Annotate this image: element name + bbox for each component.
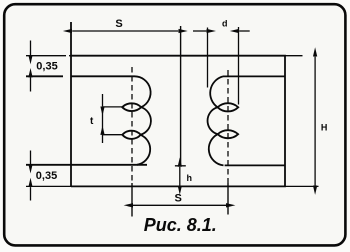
bend 3 left element xyxy=(137,135,150,165)
svg-text:H: H xyxy=(321,123,328,133)
t extension stub lower xyxy=(103,134,123,136)
dimension 0,35 bottom upper arrow xyxy=(30,151,32,165)
dimension H xyxy=(314,57,316,186)
turn ellipse 1 left element xyxy=(122,103,141,111)
svg-text:0,35: 0,35 xyxy=(36,170,57,182)
d extension line left xyxy=(207,28,209,88)
dimension 0,35 bottom lower arrow xyxy=(30,187,32,200)
bend 2 left element xyxy=(141,107,151,135)
dimension t middle line xyxy=(102,106,104,134)
wire top line right xyxy=(223,75,285,77)
t extension stub upper xyxy=(103,106,123,108)
svg-text:S: S xyxy=(115,18,122,30)
bend 1 left element xyxy=(134,76,151,107)
dimension d line right arrow xyxy=(239,30,250,32)
svg-text:d: d xyxy=(222,18,228,28)
centerline right element (dashed) xyxy=(227,70,229,183)
plate top edge extensions xyxy=(26,55,303,57)
dimension h double arrow xyxy=(179,167,181,186)
turn ellipse 2 left element xyxy=(122,131,140,139)
dimension d line left arrow xyxy=(193,30,207,32)
dimension S top xyxy=(72,30,178,32)
dimension 0,35 top lower arrow xyxy=(30,77,32,91)
svg-text:S: S xyxy=(175,192,182,204)
midline extension between elements xyxy=(175,26,186,166)
turn ellipse 1 right element xyxy=(218,103,239,111)
dimension t lower arrow xyxy=(102,135,104,143)
centerline right element extension below plate xyxy=(227,183,229,215)
turn ellipse 2 right element xyxy=(218,130,238,138)
svg-text:h: h xyxy=(186,173,192,183)
extension line wire top left xyxy=(26,75,59,77)
dimension t upper arrow xyxy=(102,94,104,106)
wire bottom line left xyxy=(26,164,147,166)
wire top line left xyxy=(26,75,134,77)
plate rectangle xyxy=(71,22,285,186)
centerline left element extension below plate xyxy=(131,183,133,217)
dimension 0,35 top upper arrow xyxy=(30,41,32,56)
plate bottom edge extensions xyxy=(26,185,319,187)
d extension line right xyxy=(238,27,240,105)
bend 2 right element xyxy=(208,107,218,134)
centerline left element (dashed) xyxy=(131,67,133,183)
svg-text:0,35: 0,35 xyxy=(36,61,57,73)
dimension S bottom xyxy=(133,204,226,206)
svg-text:Рис. 8.1.: Рис. 8.1. xyxy=(144,215,217,235)
bend 3 right element xyxy=(209,134,224,165)
bend 1 right element xyxy=(210,76,223,107)
wire bottom line right xyxy=(225,164,285,166)
